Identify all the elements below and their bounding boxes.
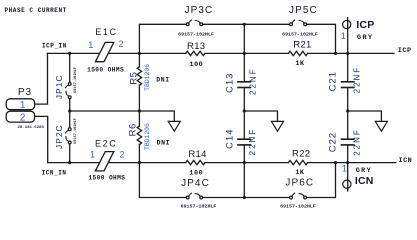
svg-text:DNI: DNI: [156, 76, 170, 83]
turret ICN: [343, 180, 351, 188]
svg-text:E2C: E2C: [95, 139, 117, 149]
svg-text:JP2C: JP2C: [54, 124, 64, 149]
wire mid shunt (y=111): [70, 111, 175, 121]
svg-text:R6: R6: [127, 123, 138, 136]
junction ICN rail / C22 column: [346, 161, 349, 164]
wire top jumper line (y=24.3): [139, 24, 186, 53]
capacitor C14: [238, 138, 251, 140]
wire bottom jumper line (y=197.5): [139, 163, 186, 198]
junction mid shunt / R5-R6: [138, 109, 141, 112]
svg-text:ICP: ICP: [398, 47, 412, 55]
svg-text:1500 OHMS: 1500 OHMS: [87, 66, 124, 73]
svg-text:R13: R13: [187, 41, 205, 52]
junction ICN rail / JP2C: [68, 161, 71, 164]
svg-text:1: 1: [20, 100, 26, 111]
wire C21/C22 ground stub: [348, 111, 382, 121]
svg-text:PHASE C CURRENT: PHASE C CURRENT: [5, 7, 67, 14]
svg-text:22NF: 22NF: [353, 128, 362, 156]
svg-text:22NF: 22NF: [248, 128, 257, 156]
svg-text:1500 OHMS: 1500 OHMS: [88, 175, 125, 182]
wire bottom rail ICN (y=162.6): [48, 162, 186, 164]
capacitor C22: [342, 138, 354, 140]
svg-text:1: 1: [88, 40, 93, 50]
svg-text:69157-102HLF: 69157-102HLF: [74, 118, 78, 144]
svg-text:R21: R21: [293, 40, 311, 51]
junction C21-C22 ground stub: [346, 109, 349, 112]
svg-text:JP4C: JP4C: [181, 178, 210, 189]
turret ICP: [343, 20, 351, 28]
svg-text:2: 2: [20, 113, 26, 124]
svg-text:1: 1: [341, 31, 346, 41]
svg-text:100: 100: [190, 61, 204, 69]
junction bottom jumper line / C14 column: [243, 196, 246, 199]
ground middle: [271, 121, 283, 131]
svg-text:22NF: 22NF: [353, 66, 362, 94]
junction ICP rail / JP1C: [68, 52, 71, 55]
wire P3 pin2 to bottom rail: [35, 116, 48, 162]
capacitor C13: [238, 81, 251, 83]
svg-text:P3: P3: [18, 87, 32, 98]
svg-text:R22: R22: [292, 148, 310, 159]
wire C13/C14 column (x=244.3): [243, 24, 245, 82]
svg-text:1: 1: [90, 149, 95, 159]
junction ICN rail / C14 column: [243, 161, 246, 164]
svg-text:JP3C: JP3C: [184, 5, 213, 16]
junction ICN rail / R6 column: [138, 161, 141, 164]
svg-text:JP5C: JP5C: [289, 5, 318, 16]
svg-text:TBD1206: TBD1206: [144, 123, 151, 150]
svg-text:C21: C21: [327, 71, 338, 91]
svg-text:1: 1: [342, 164, 347, 174]
svg-text:69157-102HLF: 69157-102HLF: [280, 204, 316, 210]
resistor R5: [137, 67, 141, 86]
svg-text:22NF: 22NF: [248, 67, 257, 95]
svg-text:2: 2: [118, 39, 123, 49]
svg-text:C14: C14: [224, 129, 235, 149]
svg-text:JP6C: JP6C: [285, 177, 314, 188]
junction C13-C14 ground stub: [243, 109, 246, 112]
svg-text:DNI: DNI: [157, 140, 171, 147]
junction ICP rail / JP5C stub: [334, 52, 337, 55]
wire P3 pin1 to top rail: [35, 53, 48, 104]
svg-text:JP1C: JP1C: [54, 74, 64, 99]
svg-text:69157-102HLF: 69157-102HLF: [178, 31, 214, 37]
svg-text:69157-102HLF: 69157-102HLF: [282, 31, 318, 37]
svg-text:ICN: ICN: [355, 175, 374, 187]
junction mid shunt / JP2C top: [68, 109, 71, 112]
svg-text:TBD1206: TBD1206: [144, 64, 151, 91]
svg-text:R5: R5: [129, 72, 140, 85]
svg-text:ICP_IN: ICP_IN: [42, 43, 67, 50]
wire R5/R6 column (x=139.4): [138, 53, 140, 66]
wire top rail ICP (y=53.4): [48, 52, 186, 54]
resistor R6: [137, 126, 141, 145]
svg-text:C22: C22: [327, 132, 338, 152]
svg-text:2: 2: [119, 149, 124, 159]
ground left: [168, 121, 180, 131]
svg-text:E1C: E1C: [95, 27, 117, 37]
wire C21/C22 column (x=347.7): [347, 18, 349, 82]
svg-text:69157-102HLF: 69157-102HLF: [74, 67, 78, 93]
svg-text:ICP: ICP: [356, 19, 374, 31]
svg-text:C13: C13: [225, 73, 236, 93]
junction ICP rail / C13 column: [243, 52, 246, 55]
svg-text:GRY: GRY: [356, 167, 372, 175]
junction ICP rail / R5 column: [138, 52, 141, 55]
svg-text:28.141.6283: 28.141.6283: [18, 126, 45, 130]
svg-text:69157-102HLF: 69157-102HLF: [181, 204, 217, 210]
junction ICN rail / JP6C stub: [334, 161, 337, 164]
svg-text:R14: R14: [188, 149, 206, 160]
svg-text:ICN: ICN: [399, 157, 413, 165]
capacitor C21: [342, 81, 354, 83]
svg-text:100: 100: [189, 169, 203, 177]
svg-text:1K: 1K: [295, 169, 305, 177]
svg-text:GRY: GRY: [357, 34, 373, 42]
wire JP1C/JP2C column (x=69.7): [69, 53, 71, 82]
svg-text:1K: 1K: [295, 60, 305, 68]
junction top jumper line / C13 column: [243, 23, 246, 26]
svg-text:ICN_IN: ICN_IN: [42, 170, 67, 177]
wire C13/C14 ground stub: [244, 111, 277, 121]
junction ICP rail / C21 column: [346, 52, 349, 55]
ground right: [375, 121, 387, 131]
